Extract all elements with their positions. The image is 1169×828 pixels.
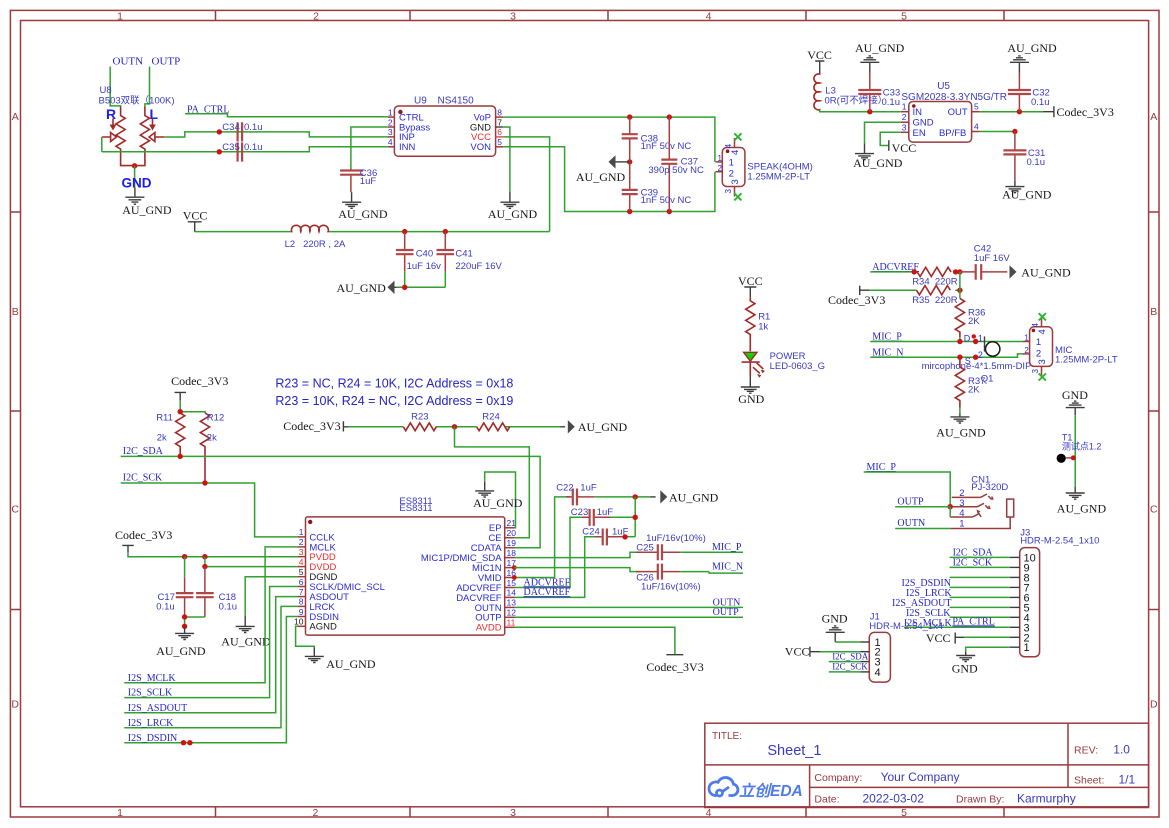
power flag AU_GND arrow at R24 (560, 420, 627, 434)
svg-text:7: 7 (497, 117, 502, 127)
wire I2S_SCLK to J3 pin4 (950, 616, 1010, 618)
svg-text:DACVREF: DACVREF (524, 587, 571, 598)
wire I2S_ASDOUT to J3 pin5 (950, 606, 1010, 608)
svg-text:2k: 2k (207, 433, 217, 444)
wire VCC to J1 pin2 (820, 651, 860, 653)
wire L wiper to C34 line with step (164, 132, 388, 137)
capacitor C38 (622, 117, 692, 162)
svg-text:B: B (12, 306, 19, 318)
wire R34 to R36 vertical (959, 272, 961, 299)
ES8311 pin 17 MIC1N (472, 558, 516, 574)
U5 pin 3 EN (901, 122, 926, 139)
ES8311 pin 12 OUTP (475, 608, 516, 624)
svg-text:3: 3 (724, 189, 733, 194)
junction C23 right (633, 515, 638, 520)
resistor R37 (955, 357, 985, 407)
ES8311 pin 21 EP (489, 518, 516, 534)
svg-text:GND: GND (952, 662, 978, 676)
svg-text:OUT: OUT (948, 107, 968, 118)
ground symbol AU_GND below T1 (1066, 486, 1085, 499)
svg-text:5: 5 (299, 567, 304, 577)
svg-text:I2S_MCLK: I2S_MCLK (128, 673, 177, 684)
svg-text:1/1: 1/1 (1119, 773, 1136, 787)
svg-text:5: 5 (901, 11, 907, 23)
svg-text:D: D (964, 333, 971, 343)
column numbers top (117, 11, 907, 23)
wire U5 GND to ground (865, 122, 901, 143)
connector MIC 1.25MM-2P-LT body (1030, 327, 1118, 367)
svg-text:L: L (150, 106, 159, 122)
svg-text:2: 2 (1036, 348, 1041, 359)
svg-text:4: 4 (299, 557, 304, 567)
J3 pin 10 (1010, 552, 1036, 564)
ground symbol AU_GND at C17 (175, 626, 194, 639)
column numbers bottom (117, 807, 907, 819)
svg-text:TITLE:: TITLE: (712, 731, 742, 742)
svg-text:OUTN: OUTN (897, 518, 925, 529)
svg-text:R: R (106, 106, 116, 122)
wire U9 VCC pin down to rail (503, 137, 549, 232)
svg-text:NS4150: NS4150 (438, 96, 475, 107)
junction C33 (867, 109, 872, 114)
wire ASDOUT to I2S_ASDOUT (124, 597, 297, 713)
svg-text:6: 6 (497, 127, 502, 137)
svg-text:R23: R23 (411, 411, 428, 422)
svg-text:AU_GND: AU_GND (326, 657, 376, 671)
wire I2C_SDA line (121, 456, 540, 547)
svg-text:VON: VON (470, 142, 491, 153)
svg-text:INN: INN (399, 142, 416, 153)
wire R wiper down to C35 line (101, 137, 103, 152)
svg-text:2K: 2K (968, 384, 980, 395)
ground symbol AU_GND at R37 (950, 413, 969, 423)
U9 pin 6 VCC (471, 127, 503, 143)
svg-text:D: D (1150, 699, 1158, 711)
pot bottom common U shape (121, 153, 145, 166)
svg-text:GND: GND (822, 612, 848, 626)
wire MIC_P line (870, 341, 1022, 343)
wire VMID to C22 (515, 497, 571, 578)
svg-text:AU_GND: AU_GND (122, 203, 172, 217)
junction C17 ground (182, 624, 187, 629)
svg-text:1uF/16v(10%): 1uF/16v(10%) (641, 582, 701, 593)
svg-text:REV:: REV: (1074, 745, 1098, 757)
svg-text:EN: EN (913, 128, 926, 139)
svg-text:AU_GND: AU_GND (576, 170, 626, 184)
connector J3 HDR-M-2.54_1x10 body (1020, 528, 1100, 657)
svg-text:U9: U9 (414, 96, 427, 107)
wire DACVREF pin to C24 (515, 537, 600, 598)
svg-text:Karmurphy: Karmurphy (1017, 792, 1076, 806)
resistor R23 (403, 411, 436, 430)
svg-text:2: 2 (978, 350, 983, 360)
svg-text:U5: U5 (937, 81, 950, 92)
capacitor C40 (396, 232, 441, 272)
wire C26 to MIC_N label (680, 572, 743, 574)
power flag VCC at rail (183, 209, 208, 232)
potentiometer U8 R element (102, 107, 125, 153)
svg-text:Codec_3V3: Codec_3V3 (1057, 105, 1114, 119)
wire OUTP to pot L top (145, 67, 150, 107)
CN1 pin 1 (950, 517, 1010, 530)
svg-text:R23 = NC, R24 = 10K, I2C Addre: R23 = NC, R24 = 10K, I2C Address = 0x18 (275, 376, 513, 390)
wire R37 to ground (959, 408, 961, 414)
capacitor C31 (1003, 132, 1045, 181)
svg-text:20: 20 (507, 528, 517, 538)
wire DGND to ground (245, 577, 297, 616)
svg-text:I2S_DSDIN: I2S_DSDIN (128, 733, 177, 744)
resistor R1 (746, 297, 771, 351)
svg-text:I2C_SCK: I2C_SCK (832, 662, 868, 672)
svg-text:4: 4 (388, 137, 393, 147)
capacitor C35 (222, 142, 262, 162)
inductor L3 (814, 73, 887, 111)
ground symbol AU_GND at EP (475, 482, 494, 497)
ES8311 pin 2 MCLK (298, 537, 337, 553)
svg-text:3: 3 (388, 127, 393, 137)
potentiometer U8 L element (140, 107, 164, 153)
svg-text:VCC: VCC (926, 631, 951, 645)
CN1 pin 4 (950, 508, 981, 519)
svg-text:1nF 50v NC: 1nF 50v NC (641, 195, 692, 206)
junction R36 MIC_P (957, 339, 962, 344)
svg-text:2: 2 (902, 112, 907, 122)
svg-text:2: 2 (718, 164, 723, 173)
svg-text:PA_CTRL: PA_CTRL (952, 616, 994, 627)
junction C24 right (622, 534, 627, 539)
junction C18 top (202, 554, 207, 559)
svg-text:VCC: VCC (807, 48, 832, 62)
svg-text:AU_GND: AU_GND (338, 207, 388, 221)
wire MIC1N pin to C26 (515, 568, 641, 572)
U9 pin 3 INP (388, 127, 415, 143)
capacitor C37 (648, 117, 704, 211)
svg-text:2: 2 (312, 807, 318, 819)
svg-text:C22: C22 (556, 483, 573, 494)
wire U9 VoP to speaker node (503, 117, 715, 162)
wire U5 BP/FB to C31 (980, 131, 1015, 133)
svg-text:C25: C25 (636, 542, 653, 553)
svg-text:C41: C41 (455, 249, 472, 260)
LED POWER LED-0603_G (742, 351, 825, 378)
wire C35 line from wiper to INN with step (102, 147, 388, 152)
test point T1 (1057, 433, 1102, 463)
wire C40 C41 bottoms to ground flag (397, 271, 446, 287)
wire ADCVREF to C42 (870, 271, 960, 273)
svg-text:1uF: 1uF (580, 483, 597, 494)
junction I2S_DSDIN a (181, 740, 186, 745)
ES8311 pin 19 CDATA (471, 538, 516, 554)
svg-text:AGND: AGND (309, 622, 337, 633)
capacitor C22 (556, 483, 597, 506)
ground symbol AU_GND above C33 (inverted) (860, 56, 879, 73)
junction C31 (1012, 129, 1017, 134)
svg-text:I2C_SCK: I2C_SCK (123, 473, 163, 484)
wire J3 pin1 to GND (966, 647, 1010, 651)
ground symbol AU_GND at U9 (500, 192, 519, 209)
svg-text:VCC: VCC (738, 274, 763, 288)
svg-text:R34 220R: R34 220R (912, 277, 958, 288)
svg-text:3: 3 (1031, 369, 1040, 374)
regulator U5 SGM2028 body (901, 81, 1007, 142)
power flag VCC at U5 EN (889, 140, 916, 155)
U9 pin 4 INN (388, 137, 416, 153)
svg-text:C35: C35 (222, 142, 239, 153)
svg-text:OUTP: OUTP (152, 56, 181, 68)
junction R34 left (912, 269, 917, 274)
svg-text:0.1u: 0.1u (156, 602, 175, 613)
capacitor C26 (636, 564, 701, 593)
svg-text:Sheet_1: Sheet_1 (767, 743, 821, 759)
wire AGND to ground (296, 626, 315, 647)
ground symbol AU_GND at C36 (342, 192, 361, 208)
svg-text:HDR-M-2.54_1x10: HDR-M-2.54_1x10 (1020, 535, 1099, 546)
svg-text:PJ-320D: PJ-320D (971, 482, 1008, 493)
junction R34 right b (957, 269, 962, 274)
svg-text:LED-0603_G: LED-0603_G (770, 361, 825, 372)
connector CN1 PJ-320D (971, 474, 1013, 517)
svg-text:I2S_SCLK: I2S_SCLK (128, 688, 173, 699)
wire OUTP to CN1 pin3 (895, 506, 950, 508)
power flag AU_GND arrow at C42 (1010, 265, 1071, 279)
junction C17 bottom (182, 614, 187, 619)
row ticks left (10, 212, 20, 610)
CN1 pin 2 (952, 488, 993, 500)
svg-text:AU_GND: AU_GND (488, 207, 538, 221)
svg-text:I2S_ASDOUT: I2S_ASDOUT (128, 703, 187, 714)
svg-text:立创EDA: 立创EDA (739, 782, 803, 800)
svg-text:R11: R11 (156, 413, 173, 424)
U9 pin 1 CTRL (388, 107, 424, 123)
ES8311 pin 6 SCLK/DMIC_SCL (298, 577, 385, 593)
ES8311 pin 10 AGND (294, 617, 337, 633)
svg-text:AVDD: AVDD (476, 623, 502, 634)
SPEAK pin 1 (716, 154, 734, 169)
svg-text:2022-03-02: 2022-03-02 (863, 792, 925, 806)
junction R35 right (957, 288, 962, 293)
J3 pin 1 (1010, 642, 1030, 654)
capacitor C39 (622, 162, 692, 212)
power flag Codec_3V3 at R35 (828, 286, 885, 307)
svg-text:0.1u: 0.1u (244, 142, 263, 153)
svg-text:MIC_N: MIC_N (712, 561, 743, 572)
svg-text:GND: GND (738, 392, 764, 406)
capacitor C23 (571, 507, 613, 526)
svg-text:3: 3 (902, 122, 907, 132)
svg-text:1uF: 1uF (360, 176, 377, 187)
wire I2S_DSDIN to J3 pin7 (950, 586, 1010, 588)
svg-text:AU_GND: AU_GND (473, 496, 523, 510)
junction C39 bottom (627, 209, 632, 214)
svg-text:SGM2028-3.3YN5G/TR: SGM2028-3.3YN5G/TR (901, 92, 1007, 103)
column ticks top (216, 10, 1005, 20)
MIC pin 2 (1023, 346, 1042, 360)
J3 pin 8 (1010, 572, 1030, 584)
wire I2S_LRCK to J3 pin6 (950, 596, 1010, 598)
J3 pin 9 (1010, 562, 1030, 574)
wire DVDD line (205, 557, 298, 567)
svg-text:7: 7 (299, 587, 304, 597)
svg-text:1: 1 (1024, 642, 1030, 654)
ES8311 pin 16 VMID (478, 568, 516, 584)
svg-text:5: 5 (901, 807, 907, 819)
svg-text:10: 10 (294, 617, 304, 627)
power flag AU_GND arrow at C40 (337, 281, 397, 295)
svg-text:4: 4 (724, 143, 733, 148)
EasyEDA logo cloud icon (709, 778, 738, 796)
ground symbol GND at LED (741, 377, 760, 394)
svg-text:mircophone-4*1.5mm-DIP: mircophone-4*1.5mm-DIP (922, 361, 1032, 372)
J3 pin 3 (1010, 622, 1030, 634)
wire GND to J1 pin1 (835, 641, 860, 643)
svg-text:5: 5 (497, 137, 502, 147)
svg-text:AU_GND: AU_GND (221, 635, 271, 649)
svg-text:A: A (12, 111, 19, 123)
svg-text:18: 18 (507, 548, 517, 558)
svg-text:3: 3 (510, 11, 516, 23)
SPEAK pin 4 top no-connect (724, 133, 742, 155)
junction C17 top (182, 554, 187, 559)
SPEAK pin 3 bottom no-connect (724, 179, 742, 200)
junction R11 top (178, 409, 183, 414)
ground symbol AU_GND at AGND (305, 648, 324, 663)
svg-text:ES8311: ES8311 (399, 503, 432, 514)
svg-text:AU_GND: AU_GND (156, 644, 206, 658)
svg-text:Codec_3V3: Codec_3V3 (828, 293, 885, 307)
wire OUTN pin to label (515, 606, 744, 608)
wire U9 GND pin to ground (503, 127, 510, 192)
svg-text:AU_GND: AU_GND (1021, 265, 1071, 279)
ground symbol GND above T1 (inverted) (1066, 401, 1085, 415)
wire C23 to junction (611, 497, 635, 537)
svg-text:Drawn By:: Drawn By: (956, 794, 1004, 806)
svg-text:390p 50v NC: 390p 50v NC (648, 165, 704, 176)
svg-text:AU_GND: AU_GND (853, 156, 903, 170)
resistor R35 (912, 286, 958, 306)
junction R37 MIC_N (957, 355, 962, 360)
wire EP to ground (485, 472, 516, 528)
svg-text:4: 4 (730, 150, 741, 155)
wire C17 C18 bottoms join (185, 617, 205, 626)
svg-text:1: 1 (1036, 337, 1041, 348)
wire OUTN to CN1 pin1 (895, 528, 950, 530)
svg-text:AU_GND: AU_GND (337, 281, 387, 295)
capacitor C33 (858, 73, 900, 112)
power flag VCC at J1 pin2 (785, 645, 821, 659)
junction C18 DVDD (202, 564, 207, 569)
J3 pin 6 (1010, 592, 1030, 604)
junction C22 right (633, 494, 638, 499)
wire CN1 vertical tie (949, 507, 951, 517)
svg-text:2K: 2K (968, 316, 980, 327)
wire U5 EN to VCC flag (880, 132, 901, 145)
junction mic pin2 (973, 355, 978, 360)
ground symbol AU_GND at DGND (236, 616, 255, 633)
ES8311 pin 5 DGND (298, 567, 338, 583)
svg-text:4: 4 (706, 11, 712, 23)
U5 pin 2 GND (901, 112, 934, 129)
ES8311 pin 9 DSDIN (298, 607, 339, 623)
capacitor C42 (960, 244, 1010, 280)
svg-text:0.1u: 0.1u (219, 602, 238, 613)
wire Codec_3V3 to R35 (869, 289, 960, 291)
power flag VCC at J3 pin2 (926, 631, 965, 645)
power flag Codec_3V3 right (1044, 105, 1114, 119)
svg-text:C: C (1150, 504, 1158, 516)
svg-text:4: 4 (974, 122, 979, 132)
svg-text:3: 3 (299, 547, 304, 557)
wire C24 to junction vertical (626, 536, 635, 538)
junction C38 mid (627, 159, 632, 164)
svg-text:AU_GND: AU_GND (1007, 41, 1057, 55)
wire U9 Bypass to C36 (351, 127, 388, 169)
inductor L2 (285, 225, 346, 250)
svg-text:BP/FB: BP/FB (939, 128, 966, 139)
capacitor C18 (196, 567, 237, 617)
U9 pin 7 GND (470, 117, 503, 133)
wire Codec_3V3 to R23 (348, 426, 560, 428)
chip ES8311 body (306, 496, 505, 635)
ground symbol AU_GND at U5 GND (855, 143, 874, 159)
junction MIC1N pin (512, 565, 517, 570)
svg-text:1uF 16V: 1uF 16V (974, 253, 1011, 264)
wire I2C_SCK to J3 pin9 (950, 566, 1010, 568)
svg-text:R24: R24 (482, 411, 499, 422)
ground symbol GND above J1 (inverted) (826, 626, 845, 642)
MIC pin 3 bottom no-connect (1031, 359, 1048, 380)
svg-text:AU_GND: AU_GND (578, 420, 628, 434)
ground symbol GND at J3 (956, 651, 975, 661)
svg-text:C34: C34 (222, 122, 239, 133)
power flag Codec_3V3 at PVDD (115, 528, 172, 553)
svg-text:4: 4 (1037, 329, 1048, 334)
svg-text:U8: U8 (100, 85, 112, 96)
svg-text:VCC: VCC (785, 645, 810, 659)
wire ADCVREF pin to C23 (515, 517, 587, 587)
junction R11 I2C_SDA (178, 454, 183, 459)
wire AVDD to Codec_3V3 flag (515, 627, 675, 654)
svg-text:AU_GND: AU_GND (1002, 188, 1052, 202)
svg-text:8: 8 (299, 597, 304, 607)
power flag Codec_3V3 at R23 (283, 419, 348, 433)
ES8311 pin 18 MIC1P/DMIC_SDA (421, 548, 516, 564)
junction R12 I2C_SCK (202, 480, 207, 485)
U5 pin 4 BP/FB (939, 122, 980, 139)
svg-text:2: 2 (1024, 346, 1029, 355)
resistor R36 (955, 298, 985, 337)
capacitor C24 (582, 526, 628, 545)
svg-text:C40: C40 (416, 249, 433, 260)
svg-text:2: 2 (313, 11, 319, 23)
svg-text:AU_GND: AU_GND (936, 426, 986, 440)
J3 pin 2 (1010, 632, 1030, 644)
potentiometer U8 designator (99, 85, 175, 107)
svg-text:1nF 50v NC: 1nF 50v NC (641, 141, 692, 152)
svg-text:B503双联（100K): B503双联（100K) (99, 95, 175, 107)
junction C34 (217, 129, 222, 134)
svg-text:A: A (1150, 111, 1157, 123)
svg-text:1: 1 (117, 11, 123, 23)
junction C37 top (667, 114, 672, 119)
capacitor C41 (437, 232, 503, 272)
svg-text:14: 14 (507, 588, 517, 598)
svg-text:MIC_P: MIC_P (712, 542, 742, 553)
svg-text:L2 220R , 2A: L2 220R , 2A (285, 239, 346, 250)
wire PA_CTRL to U9 CTRL (185, 114, 388, 117)
U9 pin 5 VON (470, 137, 503, 153)
wire I2S_MCLK PA_CTRL to J3 pin3 (904, 626, 1010, 628)
power flag Codec_3V3 at AVDD (646, 655, 703, 674)
